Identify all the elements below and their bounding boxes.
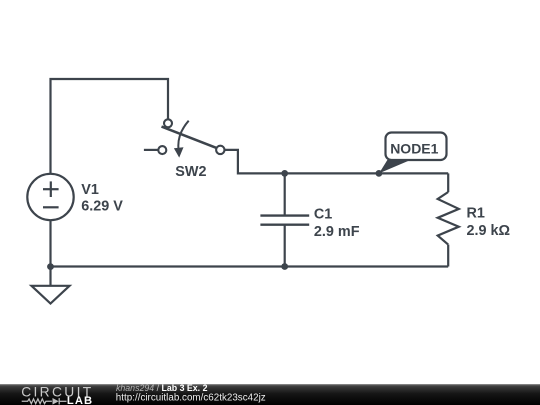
wire: bottom rail <box>51 265 449 267</box>
footer bar <box>0 382 540 405</box>
wire: ground stem <box>49 267 51 286</box>
svg-text:6.29 V: 6.29 V <box>81 199 123 215</box>
logo schematic squiggle <box>22 398 67 404</box>
svg-text:NODE1: NODE1 <box>390 140 438 156</box>
wire: switch output to node rail <box>224 150 448 174</box>
svg-text:2.9 kΩ: 2.9 kΩ <box>467 223 511 239</box>
capacitor C1 plates <box>260 216 309 225</box>
junction node at NODE1 <box>376 170 383 177</box>
svg-text:LAB: LAB <box>67 395 93 405</box>
junction node at V1/ground <box>47 263 54 270</box>
svg-text:2.9 mF: 2.9 mF <box>314 224 360 240</box>
voltage source V1 <box>27 174 73 220</box>
junction node at C1 bottom <box>281 263 288 270</box>
wire: top rail from V1 up and across to switch pole <box>51 79 169 177</box>
svg-text:http://circuitlab.com/c62tk23s: http://circuitlab.com/c62tk23sc42jz <box>116 393 266 404</box>
node flag NODE1 <box>379 133 447 174</box>
switch SW2 <box>144 119 225 157</box>
svg-text:SW2: SW2 <box>175 164 206 180</box>
ground <box>32 286 70 304</box>
svg-text:khans294 / Lab 3 Ex. 2: khans294 / Lab 3 Ex. 2 <box>116 383 208 393</box>
svg-text:C1: C1 <box>314 206 332 222</box>
wire: V1 bottom lead down to bottom rail <box>49 220 51 266</box>
wire: R1 top lead <box>447 173 449 192</box>
wire: R1 bottom lead <box>447 245 449 267</box>
wire: C1 top lead <box>284 173 286 215</box>
wire: C1 bottom lead <box>284 225 286 267</box>
svg-text:R1: R1 <box>467 206 485 222</box>
junction node at C1 top <box>281 170 288 177</box>
resistor R1 <box>438 192 459 245</box>
svg-text:V1: V1 <box>81 182 99 198</box>
